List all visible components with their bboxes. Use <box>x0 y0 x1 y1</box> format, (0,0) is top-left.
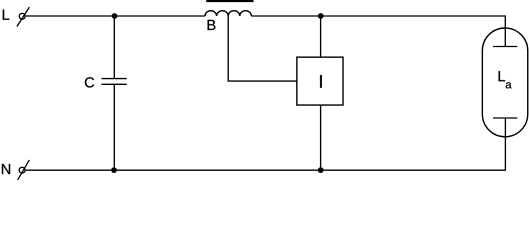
wire node A down to capacitor C <box>113 16 115 78</box>
wire node A to ballast B <box>114 15 205 17</box>
node D (junction N line / ignitor bottom) <box>318 167 324 173</box>
wire ballast tap to ignitor I <box>228 16 297 81</box>
ballast B core bar <box>206 0 253 2</box>
wire L terminal to node A <box>26 15 115 17</box>
wire ballast B to node B <box>251 15 320 17</box>
lamp La envelope <box>482 28 527 137</box>
label B <box>208 20 216 30</box>
wire node D to lamp bottom <box>321 138 506 171</box>
terminal N <box>18 160 30 180</box>
wire node B down to ignitor I top <box>320 16 322 57</box>
ignitor I box <box>297 57 343 105</box>
terminal L <box>17 7 30 26</box>
node C (junction N line / capacitor) <box>111 167 117 173</box>
node A (junction L line / capacitor) <box>112 13 118 19</box>
inductor B (ballast winding, 4 humps with center tap) <box>205 11 251 16</box>
wire capacitor C down to node C <box>113 84 115 170</box>
label N (neutral terminal) <box>2 164 10 174</box>
label L (line terminal) <box>3 10 9 20</box>
wire node B to lamp top <box>321 16 506 28</box>
wire node C to node D <box>114 169 321 171</box>
lamp La bottom electrode <box>493 118 517 138</box>
lamp La top electrode <box>493 28 517 47</box>
wire ignitor I bottom to node D <box>320 105 322 170</box>
label La (lamp) <box>499 71 505 81</box>
node B (junction L line / ignitor top) <box>318 13 324 19</box>
wire N terminal to node C <box>26 169 114 171</box>
label I (ignitor) <box>320 75 322 88</box>
label C <box>85 77 94 87</box>
capacitor C <box>102 79 127 85</box>
